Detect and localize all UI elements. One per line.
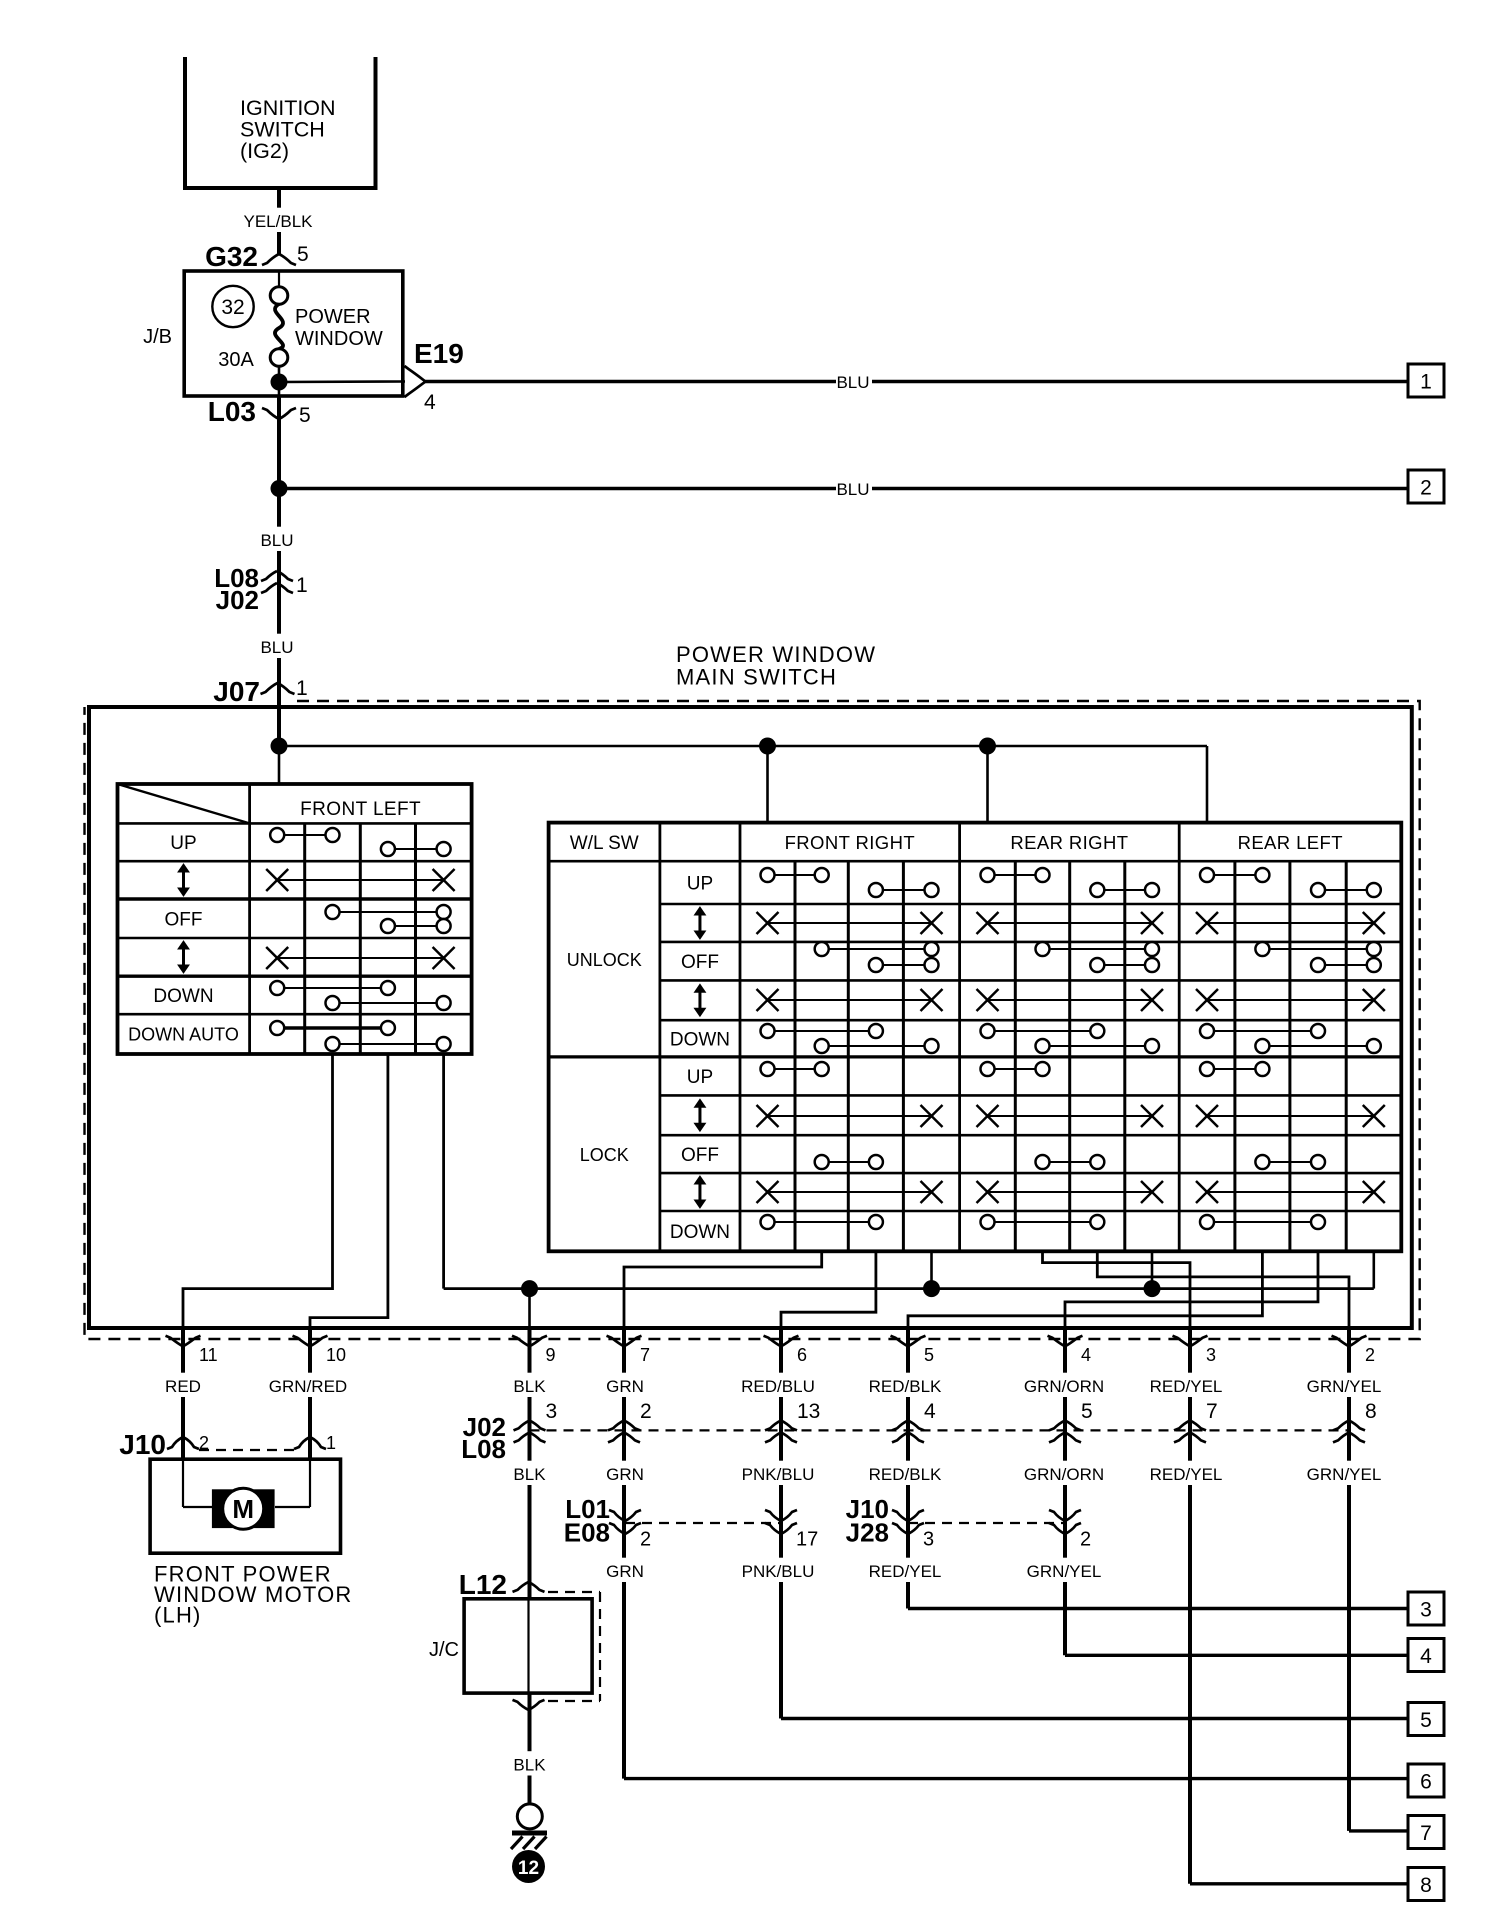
svg-text:2: 2	[640, 1400, 652, 1423]
connector J02/L08 pin 5	[1049, 1420, 1081, 1430]
svg-text:6: 6	[797, 1345, 807, 1365]
svg-text:2: 2	[1080, 1529, 1091, 1551]
wire RR col2 to pin 3	[1043, 1251, 1191, 1328]
RL lock X row 2	[1207, 1191, 1374, 1193]
junction connector J/C dashed shadow	[548, 1591, 600, 1593]
wire FL col4 to ground bus	[442, 1054, 445, 1289]
main table row lines	[549, 860, 1402, 863]
svg-text:1: 1	[326, 1433, 336, 1453]
svg-text:PNK/BLU: PNK/BLU	[742, 1562, 815, 1581]
svg-text:BLK: BLK	[513, 1465, 546, 1484]
wire FR col3 to pin 6	[781, 1251, 876, 1328]
FR unlock UP contacts	[768, 874, 822, 876]
svg-text:RED/BLK: RED/BLK	[869, 1377, 942, 1396]
RL lock X row 1	[1207, 1115, 1374, 1117]
wire label PNK/BLU	[740, 1558, 816, 1582]
main switch table frame	[549, 823, 1402, 1252]
motor M symbol	[212, 1489, 275, 1528]
endpoint box 8	[1408, 1868, 1444, 1901]
wire pin 4 GRN/YEL down	[1063, 1328, 1067, 1655]
svg-text:(IG2): (IG2)	[240, 139, 289, 163]
main switch pin 2	[1332, 1336, 1367, 1347]
svg-text:RED/YEL: RED/YEL	[1150, 1377, 1223, 1396]
svg-text:3: 3	[1420, 1599, 1432, 1622]
connector J02/L08 pin 4	[892, 1420, 924, 1430]
front left X row 1	[277, 879, 443, 881]
FR lock UP contact	[768, 1068, 822, 1070]
wire FL col3 to pin 10	[310, 1054, 388, 1328]
RL unlock X row 2	[1207, 999, 1374, 1001]
node ground bus pin 9	[521, 1280, 538, 1297]
wire label GRN/YEL	[1026, 1558, 1102, 1582]
wire label RED/BLU	[740, 1373, 816, 1397]
connector L01/E08 pin 2	[609, 1510, 641, 1521]
wire label RED/BLK	[867, 1373, 943, 1397]
wire label BLK	[510, 1751, 549, 1775]
svg-text:WINDOW: WINDOW	[295, 328, 383, 350]
front left UP contacts	[277, 834, 332, 836]
svg-text:2: 2	[1420, 477, 1432, 500]
wire label RED	[164, 1373, 203, 1397]
front left X row 2	[277, 957, 443, 959]
svg-text:1: 1	[296, 677, 308, 700]
svg-text:9: 9	[546, 1345, 556, 1365]
wire label GRN	[606, 1558, 645, 1582]
svg-text:DOWN: DOWN	[670, 1222, 730, 1243]
wire label PNK/BLU	[740, 1461, 816, 1485]
svg-text:5: 5	[297, 243, 309, 266]
front power window motor box	[150, 1459, 340, 1553]
svg-text:GRN/ORN: GRN/ORN	[1024, 1377, 1104, 1396]
wire RR col3 to pin 2	[1097, 1251, 1349, 1328]
svg-text:FRONT RIGHT: FRONT RIGHT	[785, 832, 915, 853]
ignition switch (IG2) box	[185, 57, 376, 188]
main table up-down arrows	[698, 911, 701, 935]
main switch pin 7	[607, 1336, 642, 1347]
wire pin 5 RED/YEL down	[906, 1328, 910, 1609]
svg-text:3: 3	[923, 1529, 934, 1551]
svg-text:SWITCH: SWITCH	[240, 118, 325, 142]
RL lock DOWN contact	[1207, 1221, 1318, 1223]
svg-text:32: 32	[221, 296, 244, 319]
svg-text:RED: RED	[165, 1377, 201, 1396]
RR unlock OFF contacts	[1043, 948, 1153, 950]
endpoint box 1	[1408, 364, 1444, 397]
main switch pin 6	[764, 1336, 799, 1347]
svg-text:UP: UP	[687, 874, 713, 895]
RR unlock DOWN contacts	[988, 1030, 1098, 1032]
svg-text:DOWN: DOWN	[670, 1030, 730, 1051]
node bus RR	[979, 738, 996, 755]
svg-text:RED/YEL: RED/YEL	[869, 1562, 942, 1581]
FR unlock X row 1	[768, 922, 932, 924]
front left DOWN AUTO contacts	[277, 1026, 388, 1029]
FR unlock X row 2	[768, 999, 932, 1001]
connector J10/J28 pin 3	[892, 1510, 924, 1521]
svg-text:GRN/YEL: GRN/YEL	[1307, 1377, 1382, 1396]
RR lock X row 1	[988, 1115, 1153, 1117]
FR lock DOWN contact	[768, 1221, 876, 1223]
wire L03 down BLU	[277, 396, 281, 746]
svg-text:YEL/BLK: YEL/BLK	[244, 212, 314, 231]
svg-text:POWER WINDOW: POWER WINDOW	[676, 642, 876, 667]
connector J02/L08 dashed link	[530, 1429, 1350, 1431]
wire label YEL/BLK	[240, 208, 316, 232]
wire pin 6 PNK/BLU down	[779, 1328, 783, 1719]
svg-text:BLU: BLU	[836, 373, 869, 392]
svg-text:MAIN SWITCH: MAIN SWITCH	[676, 665, 837, 690]
svg-text:J/B: J/B	[143, 326, 172, 348]
svg-text:BLK: BLK	[513, 1377, 546, 1396]
endpoint box 5	[1408, 1703, 1444, 1736]
svg-text:GRN/YEL: GRN/YEL	[1307, 1465, 1382, 1484]
svg-text:DOWN: DOWN	[153, 986, 213, 1007]
front left DOWN contacts	[277, 987, 388, 989]
svg-text:M: M	[232, 1494, 254, 1524]
node bus FL	[271, 738, 288, 755]
svg-text:L12: L12	[459, 1569, 507, 1600]
FR unlock OFF contacts	[822, 948, 932, 950]
svg-text:FRONT LEFT: FRONT LEFT	[300, 799, 421, 820]
wire label GRN	[606, 1461, 645, 1485]
RR unlock UP contacts	[988, 874, 1043, 876]
wire label GRN/YEL	[1306, 1373, 1382, 1397]
connector J02/L08 pin 2	[608, 1420, 640, 1430]
wire RL col4 to ground bus	[1373, 1251, 1376, 1288]
wire FL col2 to pin 11	[183, 1054, 333, 1328]
svg-text:12: 12	[518, 1858, 539, 1879]
svg-text:L03: L03	[208, 396, 256, 427]
wire pin 7 GRN down	[622, 1328, 626, 1779]
ground symbol G12	[517, 1804, 542, 1829]
wire PNK/BLU to endpoint 5	[781, 1717, 1408, 1720]
main switch pin 11	[166, 1336, 201, 1347]
wire RL col3 to pin 4	[1065, 1251, 1318, 1328]
svg-text:J/C: J/C	[429, 1639, 459, 1661]
svg-text:7: 7	[1420, 1822, 1432, 1845]
svg-text:RED/BLK: RED/BLK	[869, 1465, 942, 1484]
RL unlock X row 1	[1207, 922, 1374, 924]
connector L01/E08 dashed link	[625, 1522, 781, 1524]
wire label GRN	[606, 1373, 645, 1397]
svg-text:GRN: GRN	[606, 1465, 644, 1484]
wire label GRN/YEL	[1306, 1461, 1382, 1485]
node ground bus FR col4	[923, 1280, 940, 1297]
svg-text:UP: UP	[170, 833, 196, 854]
svg-text:5: 5	[1420, 1709, 1432, 1732]
wire pin 9 BLK down	[528, 1328, 532, 1599]
J/C exit connector	[513, 1700, 545, 1710]
svg-text:3: 3	[546, 1400, 558, 1423]
svg-text:5: 5	[1081, 1400, 1093, 1423]
junction node to endpoint 2	[271, 480, 288, 497]
main switch pin 4	[1048, 1336, 1083, 1347]
main switch pin 3	[1173, 1336, 1208, 1347]
node bus FR	[759, 738, 776, 755]
svg-text:4: 4	[1081, 1345, 1091, 1365]
fuse 32 circled label	[212, 286, 253, 327]
wire label GRN/ORN	[1026, 1461, 1102, 1485]
svg-text:BLU: BLU	[260, 638, 293, 657]
wire J/B to E19	[279, 380, 405, 383]
svg-text:GRN/ORN: GRN/ORN	[1024, 1465, 1104, 1484]
wire bus to RL	[1206, 746, 1209, 823]
svg-text:L08: L08	[461, 1434, 506, 1464]
wire label BLK	[510, 1373, 549, 1397]
svg-text:GRN/YEL: GRN/YEL	[1027, 1562, 1102, 1581]
main switch solid box	[89, 707, 1412, 1328]
svg-text:(LH): (LH)	[154, 1603, 202, 1628]
svg-text:J07: J07	[213, 676, 260, 707]
svg-text:5: 5	[299, 404, 311, 427]
front left OFF contacts	[333, 911, 444, 913]
ground reference circled 12	[512, 1850, 545, 1883]
svg-text:6: 6	[1420, 1771, 1432, 1794]
wire RL col2 to pin 5	[908, 1251, 1262, 1328]
RR lock OFF contact	[1043, 1161, 1098, 1163]
connector J10/J28 pin 2	[1049, 1510, 1081, 1521]
svg-text:BLU: BLU	[836, 480, 869, 499]
front left up-down arrows	[182, 868, 185, 892]
ground bus BLK	[444, 1287, 1374, 1290]
svg-text:UP: UP	[687, 1067, 713, 1088]
svg-text:GRN: GRN	[606, 1562, 644, 1581]
front left header diagonal	[118, 784, 250, 823]
svg-text:J28: J28	[846, 1518, 889, 1548]
connector J10 dashed link	[199, 1449, 294, 1451]
svg-text:11: 11	[199, 1345, 218, 1365]
wire pin 3 RED/YEL down	[1188, 1328, 1192, 1884]
svg-text:REAR RIGHT: REAR RIGHT	[1010, 832, 1128, 853]
svg-text:IGNITION: IGNITION	[240, 96, 336, 120]
svg-text:OFF: OFF	[681, 952, 719, 973]
connector L01/E08 pin 17	[765, 1510, 797, 1521]
svg-text:4: 4	[924, 1400, 936, 1423]
svg-text:10: 10	[326, 1345, 346, 1365]
junction connector J/C box	[464, 1599, 592, 1693]
endpoint box 4	[1408, 1639, 1444, 1672]
svg-text:BLU: BLU	[260, 531, 293, 550]
connector J02/L08 pin 8	[1333, 1420, 1365, 1430]
wire GRN/YEL to endpoint 7	[1349, 1829, 1408, 1832]
node ground bus RR col4	[1144, 1280, 1161, 1297]
wire label GRN/ORN	[1026, 1373, 1102, 1397]
svg-text:OFF: OFF	[681, 1145, 719, 1166]
svg-text:J02: J02	[216, 585, 259, 615]
FR unlock DOWN contacts	[768, 1030, 876, 1032]
RL unlock OFF contacts	[1262, 948, 1373, 950]
svg-text:3: 3	[1206, 1345, 1216, 1365]
connector J02/L08 pin 13	[765, 1420, 797, 1430]
RR lock DOWN contact	[988, 1221, 1098, 1223]
wire FR col2 to pin 7	[624, 1251, 822, 1328]
junction block J/B box	[184, 271, 403, 396]
wire label RED/BLK	[867, 1461, 943, 1485]
wire label BLU	[258, 634, 297, 658]
svg-text:OFF: OFF	[165, 910, 203, 931]
FR lock X row 1	[768, 1115, 932, 1117]
svg-text:4: 4	[1420, 1645, 1432, 1668]
front left switch table frame	[118, 784, 472, 1054]
svg-text:RED/BLU: RED/BLU	[741, 1377, 815, 1396]
svg-text:DOWN AUTO: DOWN AUTO	[128, 1025, 239, 1045]
svg-text:30A: 30A	[218, 349, 254, 371]
svg-text:GRN: GRN	[606, 1377, 644, 1396]
wire ignition switch to G32	[277, 188, 281, 254]
FR lock X row 2	[768, 1191, 932, 1193]
RR unlock X row 2	[988, 999, 1153, 1001]
wire BLU to endpoint 1	[426, 380, 837, 383]
svg-text:E19: E19	[414, 338, 464, 369]
wire pin 11 to motor	[181, 1328, 185, 1459]
svg-text:4: 4	[424, 391, 436, 414]
svg-text:13: 13	[797, 1400, 820, 1423]
RR lock X row 2	[988, 1191, 1153, 1193]
endpoint box 6	[1408, 1764, 1444, 1797]
svg-text:E08: E08	[564, 1518, 610, 1548]
svg-text:5: 5	[924, 1345, 934, 1365]
wire pin 10 to motor	[308, 1328, 312, 1459]
svg-text:17: 17	[796, 1529, 818, 1551]
svg-text:8: 8	[1365, 1400, 1377, 1423]
svg-text:GRN/RED: GRN/RED	[269, 1377, 347, 1396]
svg-text:1: 1	[1420, 371, 1432, 394]
wire GRN/YEL to endpoint 4	[1065, 1654, 1408, 1657]
internal supply bus	[279, 745, 1207, 748]
wire label RED/YEL	[1148, 1461, 1224, 1485]
wire GRN to endpoint 6	[624, 1777, 1408, 1780]
svg-text:8: 8	[1420, 1874, 1432, 1897]
svg-text:G32: G32	[205, 241, 258, 272]
wire RED/YEL to endpoint 3	[908, 1607, 1408, 1610]
wire label GRN/RED	[270, 1373, 346, 1397]
svg-text:1: 1	[296, 574, 308, 597]
junction node in J/B	[271, 374, 288, 391]
endpoint box 2	[1408, 470, 1444, 503]
endpoint box 7	[1408, 1816, 1444, 1849]
wire BLU to endpoint 2	[279, 487, 836, 490]
wire label RED/YEL	[867, 1558, 943, 1582]
RL unlock DOWN contacts	[1207, 1030, 1318, 1032]
svg-text:7: 7	[1206, 1400, 1218, 1423]
svg-text:2: 2	[640, 1529, 651, 1551]
RL unlock UP contacts	[1207, 874, 1262, 876]
svg-text:J10: J10	[119, 1429, 166, 1460]
RL lock OFF contact	[1262, 1161, 1318, 1163]
wire label BLK	[510, 1461, 549, 1485]
svg-text:7: 7	[640, 1345, 650, 1365]
RR lock UP contact	[988, 1068, 1043, 1070]
svg-text:POWER: POWER	[295, 306, 371, 328]
main switch pin 5	[891, 1336, 926, 1347]
svg-text:LOCK: LOCK	[580, 1145, 629, 1165]
connector J02/L08 pin 7	[1174, 1420, 1206, 1430]
main switch dashed border	[85, 701, 1420, 1339]
wire RED/YEL to endpoint 8	[1190, 1882, 1408, 1885]
main switch pin 10	[293, 1336, 328, 1347]
connector J02/L08 pin 3	[514, 1420, 546, 1430]
FR lock OFF contact	[822, 1161, 876, 1163]
svg-text:2: 2	[1365, 1345, 1375, 1365]
svg-text:RED/YEL: RED/YEL	[1150, 1465, 1223, 1484]
svg-text:W/L SW: W/L SW	[570, 833, 639, 854]
svg-text:UNLOCK: UNLOCK	[567, 950, 642, 970]
svg-text:REAR LEFT: REAR LEFT	[1238, 832, 1343, 853]
connector J10/J28 dashed link	[908, 1522, 1065, 1524]
wire label BLU	[258, 527, 297, 551]
wire label RED/YEL	[1148, 1373, 1224, 1397]
svg-text:BLK: BLK	[513, 1756, 546, 1775]
wire pin 2 GRN/YEL down	[1347, 1328, 1351, 1831]
svg-text:PNK/BLU: PNK/BLU	[742, 1465, 815, 1484]
main switch pin 9	[512, 1336, 547, 1347]
RR unlock X row 1	[988, 922, 1153, 924]
RL lock UP contact	[1207, 1068, 1262, 1070]
endpoint box 3	[1408, 1592, 1444, 1625]
